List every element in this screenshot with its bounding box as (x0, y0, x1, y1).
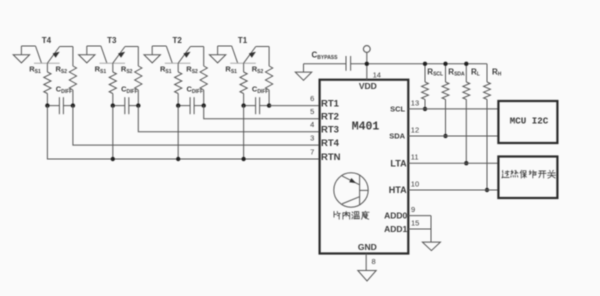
svg-text:4: 4 (310, 120, 314, 129)
svg-text:8: 8 (372, 257, 376, 266)
svg-text:MCU I2C: MCU I2C (510, 115, 549, 126)
svg-text:RT3: RT3 (321, 125, 339, 136)
svg-text:SDA: SDA (389, 132, 405, 141)
svg-text:HTA: HTA (389, 185, 407, 195)
svg-text:14: 14 (373, 70, 381, 79)
svg-text:RT1: RT1 (321, 99, 340, 110)
svg-text:6: 6 (310, 94, 314, 103)
svg-text:GND: GND (358, 242, 377, 252)
svg-text:T4: T4 (42, 36, 52, 45)
svg-text:3: 3 (310, 134, 314, 143)
svg-text:12: 12 (411, 125, 419, 134)
svg-text:T1: T1 (238, 36, 248, 45)
svg-text:RT2: RT2 (321, 112, 339, 123)
svg-text:T3: T3 (107, 36, 117, 45)
svg-text:ADD1: ADD1 (384, 224, 407, 234)
svg-text:15: 15 (411, 218, 419, 227)
svg-text:7: 7 (310, 147, 314, 156)
svg-text:RTN: RTN (321, 152, 341, 163)
svg-text:9: 9 (411, 205, 415, 214)
svg-text:LTA: LTA (390, 158, 407, 168)
svg-text:VDD: VDD (359, 81, 377, 91)
svg-text:RT4: RT4 (321, 138, 340, 149)
svg-text:T2: T2 (173, 36, 183, 45)
svg-text:11: 11 (411, 153, 419, 162)
svg-text:10: 10 (411, 179, 419, 188)
svg-text:M401: M401 (352, 121, 380, 134)
svg-text:5: 5 (310, 107, 314, 116)
svg-text:SCL: SCL (390, 105, 405, 114)
svg-text:ADD0: ADD0 (384, 211, 407, 221)
svg-text:13: 13 (411, 98, 419, 107)
